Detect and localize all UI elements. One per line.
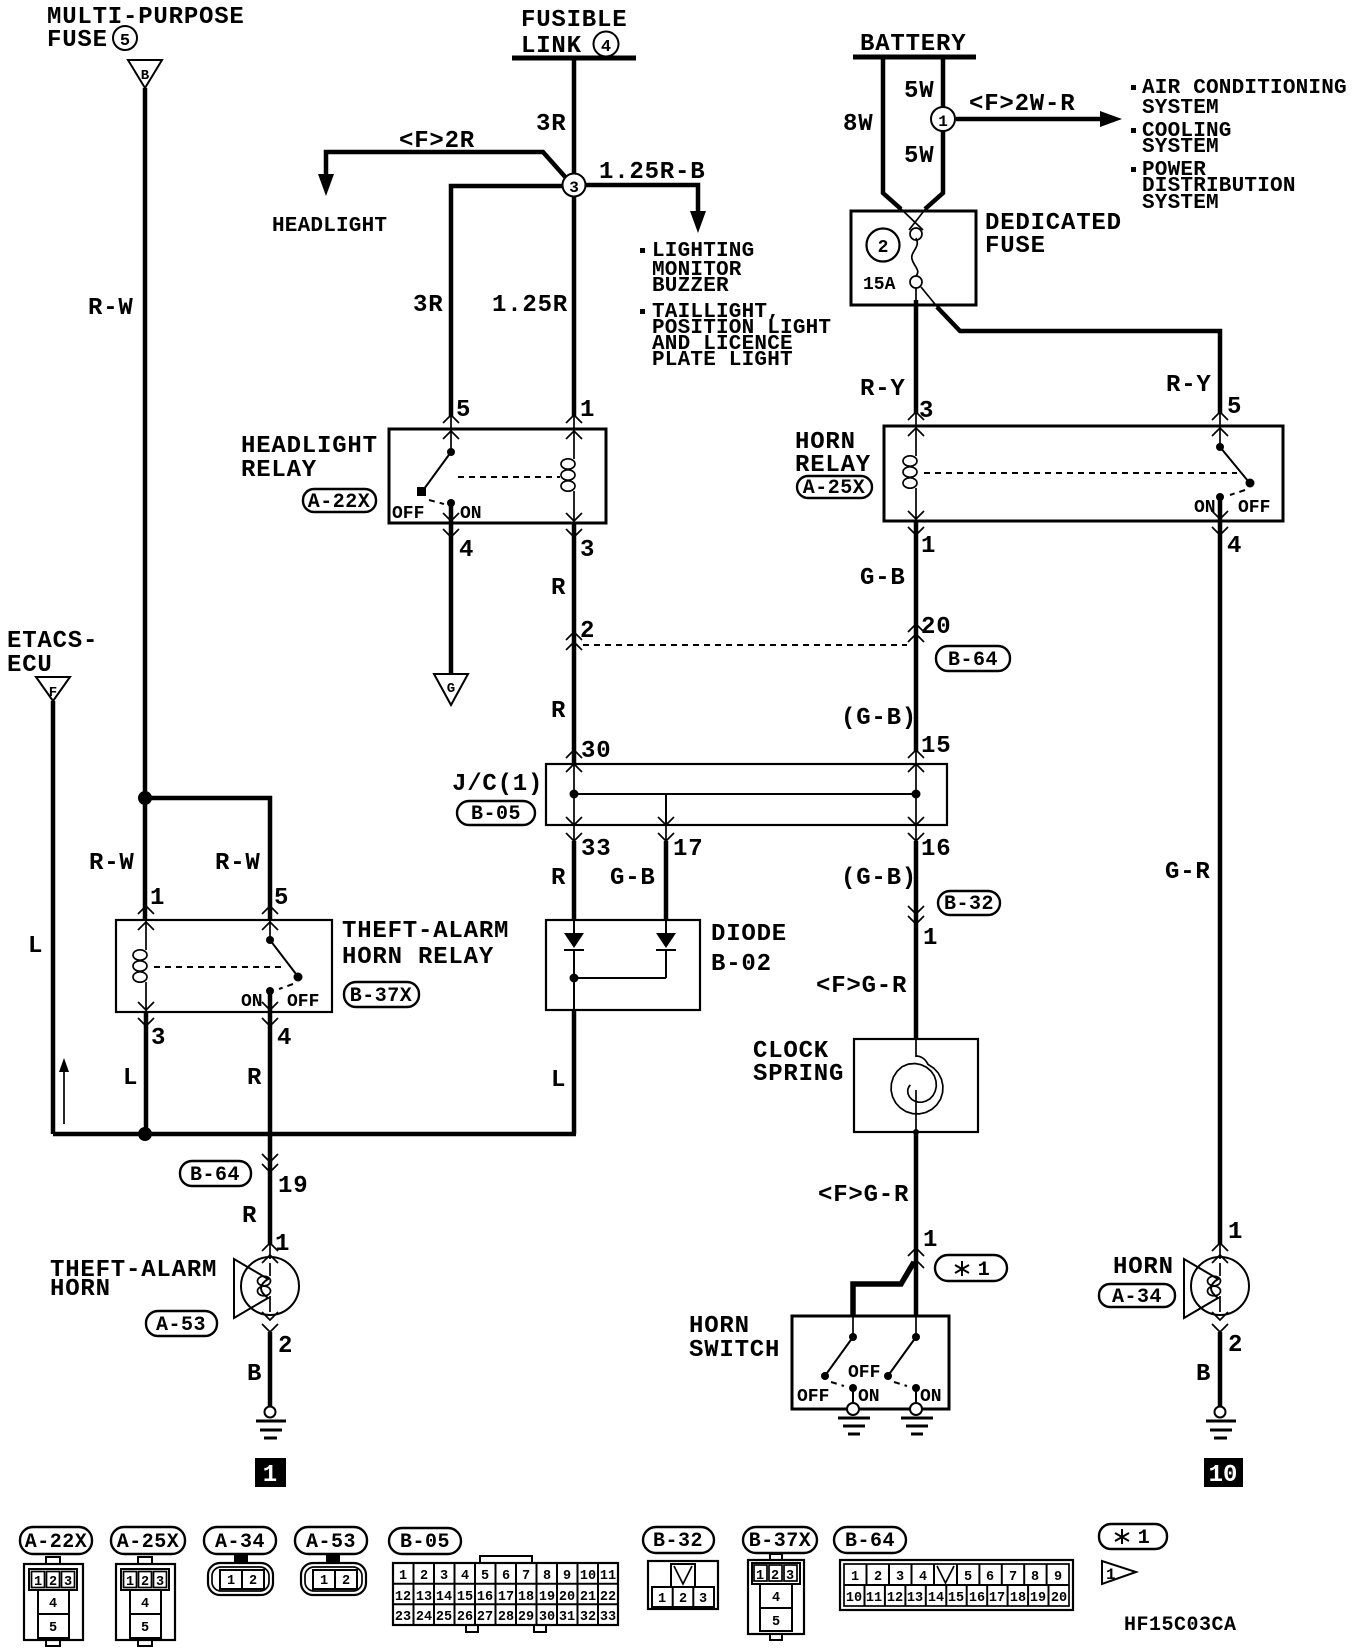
pin 30 chevrons bbox=[566, 750, 582, 772]
svg-text:3: 3 bbox=[569, 179, 579, 197]
relay HEADLIGHT RELAY box A-22X bbox=[389, 429, 606, 523]
svg-text:ON: ON bbox=[460, 504, 482, 524]
svg-text:HORN: HORN bbox=[1113, 1254, 1174, 1281]
pin 5 chevrons horn relay bbox=[1212, 412, 1228, 436]
svg-text:HORN: HORN bbox=[689, 1313, 750, 1340]
svg-text:3: 3 bbox=[440, 1569, 448, 1584]
label MULTI-PURPOSE FUSE 5 bbox=[47, 4, 245, 54]
pin 1 chevrons horn relay bbox=[908, 511, 924, 535]
svg-text:SYSTEM: SYSTEM bbox=[1142, 97, 1219, 120]
coil theft relay bbox=[133, 920, 147, 1012]
svg-text:HORN RELAY: HORN RELAY bbox=[342, 944, 494, 971]
svg-text:26: 26 bbox=[457, 1610, 473, 1625]
svg-text:5: 5 bbox=[141, 1621, 149, 1636]
connector label A-22X bbox=[303, 489, 376, 514]
svg-text:1: 1 bbox=[580, 397, 595, 424]
svg-text:10: 10 bbox=[846, 1591, 862, 1606]
svg-text:30: 30 bbox=[539, 1610, 555, 1625]
svg-text:14: 14 bbox=[928, 1591, 944, 1606]
node junction L wire bbox=[138, 1127, 152, 1141]
svg-text:2: 2 bbox=[278, 1333, 293, 1360]
wire L horizontal bottom run bbox=[53, 1132, 576, 1137]
svg-text:4: 4 bbox=[141, 1597, 149, 1612]
svg-text:DIODE: DIODE bbox=[711, 921, 787, 948]
svg-text:ON: ON bbox=[1194, 498, 1216, 518]
svg-text:18: 18 bbox=[1010, 1591, 1026, 1606]
svg-text:ECU: ECU bbox=[7, 652, 53, 679]
diode 2 bbox=[656, 920, 676, 978]
label lighting monitor buzzer list bbox=[640, 240, 831, 372]
label DEDICATED FUSE bbox=[985, 210, 1122, 260]
svg-text:5: 5 bbox=[274, 885, 289, 912]
svg-text:17: 17 bbox=[989, 1591, 1005, 1606]
svg-text:L: L bbox=[28, 933, 43, 960]
svg-text:3: 3 bbox=[156, 1575, 164, 1590]
dashed link coil to switch horn relay bbox=[924, 472, 1237, 474]
pin 3 chevrons theft relay bbox=[138, 1002, 154, 1026]
svg-text:ON: ON bbox=[858, 1387, 880, 1407]
svg-text:30: 30 bbox=[581, 738, 611, 765]
svg-text:15: 15 bbox=[921, 733, 951, 760]
svg-text:5: 5 bbox=[456, 397, 471, 424]
svg-text:16: 16 bbox=[969, 1591, 985, 1606]
svg-text:HORN: HORN bbox=[50, 1276, 111, 1303]
svg-text:1: 1 bbox=[1228, 1219, 1243, 1246]
svg-text:B-64: B-64 bbox=[948, 649, 998, 672]
dashed link coil to switch bbox=[458, 476, 560, 478]
svg-text:33: 33 bbox=[581, 836, 611, 863]
svg-text:A-34: A-34 bbox=[1112, 1286, 1162, 1309]
svg-text:<F>G-R: <F>G-R bbox=[816, 973, 907, 1000]
wire R-W branch to theft relay pin 5 bbox=[145, 798, 270, 920]
power symbol B (multi-purpose fuse) bbox=[128, 60, 162, 88]
svg-text:8: 8 bbox=[1031, 1570, 1039, 1585]
wire G-B J/C pin 17 to diode bbox=[665, 825, 667, 842]
svg-text:4: 4 bbox=[49, 1597, 57, 1612]
svg-text:B-02: B-02 bbox=[711, 951, 772, 978]
svg-text:R-W: R-W bbox=[88, 295, 134, 322]
connector label B-32 bbox=[938, 891, 1000, 916]
svg-text:2: 2 bbox=[771, 1569, 779, 1584]
wire (F)G-R clock spring down bbox=[914, 1132, 919, 1316]
svg-text:4: 4 bbox=[601, 38, 611, 57]
ground symbol horn switch 1 bbox=[838, 1403, 870, 1434]
direction arrow up bbox=[59, 1058, 69, 1124]
svg-text:G: G bbox=[447, 681, 455, 697]
svg-text:4: 4 bbox=[1227, 533, 1242, 560]
svg-text:HEADLIGHT: HEADLIGHT bbox=[241, 433, 378, 460]
connector label A-53 bbox=[146, 1311, 217, 1337]
battery bus bar bbox=[853, 55, 976, 60]
svg-text:OFF: OFF bbox=[392, 504, 424, 524]
connector label A-25X bbox=[797, 476, 872, 500]
label HORN SWITCH bbox=[689, 1313, 780, 1364]
svg-text:20: 20 bbox=[559, 1590, 575, 1605]
svg-text:2: 2 bbox=[420, 1569, 428, 1584]
wire L from ETACS-ECU down bbox=[51, 701, 56, 1134]
wire L theft relay pin 3 down bbox=[144, 1012, 149, 1134]
relay HORN RELAY box A-25X bbox=[884, 426, 1283, 521]
svg-text:HEADLIGHT: HEADLIGHT bbox=[272, 215, 387, 238]
wire R-W from fuse B down to junction bbox=[143, 88, 148, 798]
connector pinout A-25X label bbox=[111, 1527, 185, 1554]
svg-text:B-05: B-05 bbox=[471, 803, 521, 826]
horn HORN symbol bbox=[1184, 1257, 1249, 1318]
svg-text:(G-B): (G-B) bbox=[841, 865, 917, 892]
svg-text:1.25R-B: 1.25R-B bbox=[599, 159, 705, 186]
connector label B-05 bbox=[457, 801, 535, 826]
svg-text:R-Y: R-Y bbox=[860, 376, 906, 403]
svg-text:3: 3 bbox=[699, 1592, 707, 1607]
svg-text:1: 1 bbox=[921, 533, 936, 560]
label THEFT-ALARM HORN RELAY bbox=[342, 918, 509, 971]
svg-text:11: 11 bbox=[866, 1591, 882, 1606]
svg-text:2: 2 bbox=[679, 1592, 687, 1607]
switch horn relay bbox=[1216, 426, 1255, 521]
node junction R-W split bbox=[138, 791, 152, 805]
svg-text:B-64: B-64 bbox=[845, 1530, 895, 1553]
svg-text:ON: ON bbox=[920, 1387, 942, 1407]
svg-text:SPRING: SPRING bbox=[753, 1061, 844, 1088]
theft alarm horn pin 1 chevrons bbox=[262, 1243, 278, 1263]
svg-text:1: 1 bbox=[938, 113, 948, 131]
svg-text:3: 3 bbox=[580, 537, 595, 564]
svg-text:9: 9 bbox=[563, 1569, 571, 1584]
svg-text:5: 5 bbox=[481, 1569, 489, 1584]
connector label B-37X bbox=[344, 982, 419, 1008]
svg-text:15: 15 bbox=[948, 1591, 964, 1606]
pin 4 chevrons horn relay bbox=[1212, 511, 1228, 535]
pin 3 chevrons horn relay bbox=[908, 412, 924, 436]
svg-text:OFF: OFF bbox=[287, 992, 319, 1012]
wire R-Y branch to horn relay pin 5 bbox=[921, 287, 1220, 427]
wire pin 4 to ground G bbox=[449, 523, 454, 674]
connector pinout B-32 label bbox=[643, 1527, 714, 1553]
svg-text:6: 6 bbox=[502, 1569, 510, 1584]
svg-text:29: 29 bbox=[518, 1610, 534, 1625]
svg-text:3R: 3R bbox=[536, 111, 566, 138]
svg-text:5W: 5W bbox=[904, 143, 934, 170]
svg-text:R: R bbox=[247, 1065, 262, 1092]
pin 16 chevrons bbox=[908, 817, 924, 841]
svg-text:2: 2 bbox=[1228, 1332, 1243, 1359]
svg-text:SYSTEM: SYSTEM bbox=[1142, 192, 1219, 215]
ground symbol theft alarm horn bbox=[256, 1407, 286, 1439]
label CLOCK SPRING bbox=[753, 1038, 844, 1088]
svg-text:1: 1 bbox=[227, 1574, 235, 1589]
label ON / OFF theft relay bbox=[241, 992, 319, 1012]
svg-text:HF15C03CA: HF15C03CA bbox=[1124, 1614, 1237, 1637]
svg-text:7: 7 bbox=[522, 1569, 530, 1584]
svg-text:1: 1 bbox=[34, 1575, 42, 1590]
svg-text:8: 8 bbox=[543, 1569, 551, 1584]
svg-text:A-22X: A-22X bbox=[25, 1531, 88, 1554]
B-64 crossing chevrons bbox=[262, 1154, 278, 1172]
svg-text:A-53: A-53 bbox=[156, 1314, 206, 1337]
svg-text:2: 2 bbox=[342, 1574, 350, 1589]
svg-text:BATTERY: BATTERY bbox=[860, 31, 966, 58]
svg-text:1: 1 bbox=[978, 1259, 991, 1282]
connector pinout A-34 body bbox=[208, 1555, 273, 1595]
svg-text:15A: 15A bbox=[863, 275, 896, 295]
pin 4 chevrons headlight relay bbox=[443, 513, 459, 537]
clock spring spiral bbox=[891, 1039, 943, 1135]
svg-text:FUSE: FUSE bbox=[985, 233, 1046, 260]
wire 8W battery left leg bbox=[883, 57, 901, 209]
connector label B-64 left bbox=[180, 1161, 251, 1187]
svg-text:FUSE: FUSE bbox=[47, 27, 108, 54]
svg-text:RELAY: RELAY bbox=[241, 457, 317, 484]
connector pinout B-64 body bbox=[840, 1560, 1073, 1610]
label HEADLIGHT RELAY bbox=[241, 433, 378, 484]
svg-text:<F>G-R: <F>G-R bbox=[818, 1182, 909, 1209]
svg-text:27: 27 bbox=[477, 1610, 493, 1625]
svg-text:4: 4 bbox=[459, 537, 474, 564]
svg-text:9: 9 bbox=[1054, 1570, 1062, 1585]
svg-text:3: 3 bbox=[786, 1569, 794, 1584]
svg-text:R: R bbox=[242, 1203, 257, 1230]
svg-text:10: 10 bbox=[580, 1569, 596, 1584]
svg-text:4: 4 bbox=[461, 1569, 469, 1584]
svg-text:13: 13 bbox=[907, 1591, 923, 1606]
svg-text:B-32: B-32 bbox=[653, 1530, 703, 1553]
svg-text:B-37X: B-37X bbox=[350, 985, 413, 1008]
wire (F)2R branch to headlight bbox=[318, 152, 567, 196]
svg-text:3R: 3R bbox=[413, 292, 443, 319]
svg-text:J/C(1): J/C(1) bbox=[452, 771, 543, 798]
label DIODE B-02 bbox=[711, 921, 787, 978]
svg-text:1: 1 bbox=[1106, 1566, 1116, 1584]
svg-text:4: 4 bbox=[772, 1591, 780, 1606]
pin 33 chevrons bbox=[566, 817, 582, 841]
svg-text:2: 2 bbox=[49, 1575, 57, 1590]
svg-text:5: 5 bbox=[49, 1621, 57, 1636]
connector pinout A-34 label bbox=[204, 1527, 276, 1554]
junction connector J/C(1) box B-05 bbox=[546, 764, 947, 825]
svg-text:B: B bbox=[247, 1361, 262, 1388]
svg-text:SYSTEM: SYSTEM bbox=[1142, 136, 1219, 159]
page ref box 10 bbox=[1204, 1458, 1243, 1489]
svg-text:B-32: B-32 bbox=[944, 893, 994, 916]
svg-text:FUSIBLE: FUSIBLE bbox=[521, 7, 627, 34]
svg-text:5: 5 bbox=[120, 32, 130, 51]
svg-text:19: 19 bbox=[1030, 1591, 1046, 1606]
svg-text:R-W: R-W bbox=[215, 850, 261, 877]
svg-text:BUZZER: BUZZER bbox=[652, 275, 729, 298]
wire R headlight relay pin 3 down bbox=[572, 523, 577, 764]
svg-text:2: 2 bbox=[249, 1574, 257, 1589]
clock spring box bbox=[854, 1039, 978, 1132]
svg-text:7: 7 bbox=[1009, 1570, 1017, 1585]
svg-text:1: 1 bbox=[399, 1569, 407, 1584]
svg-text:ETACS-: ETACS- bbox=[7, 628, 98, 655]
connector pinout B-64 label bbox=[834, 1527, 906, 1553]
pin 4 chevrons theft relay bbox=[262, 1002, 278, 1026]
svg-text:28: 28 bbox=[498, 1610, 514, 1625]
pin 15 chevrons bbox=[908, 750, 924, 772]
wire 3R from node 3 to headlight relay pin 5 bbox=[451, 186, 574, 416]
svg-text:A-22X: A-22X bbox=[308, 491, 371, 514]
svg-text:1: 1 bbox=[756, 1569, 764, 1584]
power symbol F (ETACS-ECU) bbox=[36, 677, 70, 701]
svg-text:1: 1 bbox=[126, 1575, 134, 1590]
page ref box 1 bbox=[255, 1458, 286, 1489]
svg-text:20: 20 bbox=[921, 614, 951, 641]
fuse element symbol bbox=[910, 228, 922, 288]
node 1 circle bbox=[931, 107, 955, 131]
ground symbol horn switch 2 bbox=[901, 1403, 933, 1434]
pin 17 chevrons bbox=[658, 817, 674, 841]
svg-text:ON: ON bbox=[241, 992, 263, 1012]
svg-text:B-05: B-05 bbox=[400, 1531, 450, 1554]
svg-text:10: 10 bbox=[1209, 1462, 1238, 1489]
svg-text:16: 16 bbox=[477, 1590, 493, 1605]
horn A-34 pin 2 chevrons bbox=[1212, 1312, 1228, 1332]
svg-text:5: 5 bbox=[1227, 394, 1242, 421]
svg-text:19: 19 bbox=[539, 1590, 555, 1605]
svg-text:5: 5 bbox=[964, 1570, 972, 1585]
svg-text:24: 24 bbox=[416, 1610, 432, 1625]
connector pinout A-53 body bbox=[301, 1555, 366, 1595]
svg-text:25: 25 bbox=[436, 1610, 452, 1625]
theft alarm horn pin 2 chevrons bbox=[262, 1312, 278, 1332]
svg-text:5: 5 bbox=[772, 1615, 780, 1630]
diode box B-02 bbox=[546, 920, 700, 1010]
svg-text:G-B: G-B bbox=[610, 865, 656, 892]
label ON / OFF horn relay bbox=[1194, 498, 1270, 518]
switch theft relay bbox=[266, 920, 303, 1012]
dashed wire junction 2 to junction 20 bbox=[583, 644, 907, 646]
horn switch contact 1 bbox=[821, 1316, 857, 1403]
svg-text:1: 1 bbox=[275, 1231, 290, 1258]
pin 5 chevrons headlight relay bbox=[443, 415, 459, 439]
svg-text:1: 1 bbox=[851, 1570, 859, 1585]
fusible link bus bar bbox=[512, 56, 636, 61]
label OFF ON horn switch lower left bbox=[797, 1387, 880, 1407]
svg-text:2: 2 bbox=[580, 618, 595, 645]
pin 3 chevrons headlight relay bbox=[566, 513, 582, 537]
svg-text:12: 12 bbox=[887, 1591, 903, 1606]
svg-text:L: L bbox=[123, 1065, 138, 1092]
svg-text:R: R bbox=[551, 865, 566, 892]
connector pinout A-25X body bbox=[116, 1557, 175, 1646]
label air conditioning cooling power list bbox=[1131, 77, 1347, 215]
horn switch pin 1 chevrons bbox=[908, 1248, 924, 1268]
connector pinout B-32 body bbox=[648, 1561, 718, 1609]
junction 20 chevrons bbox=[908, 624, 924, 642]
symbol triangle 1 bbox=[1102, 1561, 1136, 1584]
pin 5 chevrons theft relay bbox=[262, 906, 278, 930]
svg-text:A-25X: A-25X bbox=[117, 1531, 180, 1554]
svg-text:<F>2R: <F>2R bbox=[399, 128, 475, 155]
svg-text:2: 2 bbox=[874, 1570, 882, 1585]
wire 1.25R from node 3 to headlight relay pin 1 bbox=[572, 196, 577, 416]
svg-text:(G-B): (G-B) bbox=[841, 705, 917, 732]
pin 1 chevrons theft relay bbox=[138, 906, 154, 930]
svg-text:SWITCH: SWITCH bbox=[689, 1337, 780, 1364]
connector pinout B-37X label bbox=[743, 1527, 817, 1553]
svg-text:1: 1 bbox=[263, 1462, 277, 1489]
wire R-W junction to theft relay pin 1 bbox=[143, 798, 148, 920]
wire R theft relay pin 4 down bbox=[268, 1012, 273, 1245]
wire 5W battery right leg upper bbox=[941, 57, 946, 107]
svg-text:18: 18 bbox=[518, 1590, 534, 1605]
svg-text:<F>2W-R: <F>2W-R bbox=[969, 91, 1075, 118]
wire branch to horn switch contacts bbox=[853, 1262, 914, 1316]
wire B theft alarm horn to ground bbox=[268, 1332, 273, 1406]
connector pinout B-05 body bbox=[393, 1556, 618, 1632]
svg-text:2: 2 bbox=[141, 1575, 149, 1590]
diode 1 bbox=[564, 920, 584, 978]
svg-text:1: 1 bbox=[1138, 1527, 1151, 1550]
svg-text:33: 33 bbox=[600, 1610, 616, 1625]
connector pinout B-05 label bbox=[389, 1528, 461, 1554]
wire 3R from fusible link down to node 3 bbox=[572, 58, 577, 178]
pin 1 chevrons headlight relay bbox=[566, 415, 582, 439]
svg-text:F: F bbox=[49, 685, 57, 701]
connector label B-64 right bbox=[936, 646, 1010, 672]
ground symbol horn bbox=[1206, 1407, 1236, 1439]
svg-text:3: 3 bbox=[64, 1575, 72, 1590]
label HORN RELAY bbox=[795, 429, 871, 479]
junction 2 chevrons bbox=[566, 632, 582, 650]
coil horn relay bbox=[903, 426, 917, 521]
svg-text:A-53: A-53 bbox=[306, 1531, 356, 1554]
svg-text:OFF: OFF bbox=[797, 1387, 829, 1407]
svg-text:4: 4 bbox=[919, 1570, 927, 1585]
svg-text:6: 6 bbox=[986, 1570, 994, 1585]
svg-text:PLATE LIGHT: PLATE LIGHT bbox=[652, 349, 793, 372]
label FUSIBLE LINK 4 bbox=[521, 7, 627, 60]
svg-text:3: 3 bbox=[151, 1025, 166, 1052]
svg-text:1: 1 bbox=[150, 885, 165, 912]
svg-text:20: 20 bbox=[1051, 1591, 1067, 1606]
horn A-34 pin 1 chevrons bbox=[1212, 1243, 1228, 1263]
svg-text:G-R: G-R bbox=[1165, 859, 1211, 886]
svg-text:1: 1 bbox=[923, 1227, 938, 1254]
wire G-R horn relay pin 4 down to horn bbox=[1218, 521, 1223, 1245]
wire L diode output down bbox=[573, 978, 575, 1134]
wire (F)2W-R arrow to systems bbox=[956, 111, 1122, 127]
label THEFT-ALARM HORN bbox=[50, 1257, 217, 1303]
svg-text:2: 2 bbox=[878, 238, 889, 258]
label ETACS-ECU bbox=[7, 628, 98, 679]
svg-text:B-37X: B-37X bbox=[749, 1530, 812, 1553]
svg-text:A-34: A-34 bbox=[215, 1531, 265, 1554]
connector pinout A-53 label bbox=[295, 1527, 367, 1554]
switch headlight relay bbox=[417, 429, 455, 523]
wire 5W battery right leg lower bbox=[925, 131, 943, 209]
svg-text:3: 3 bbox=[896, 1570, 904, 1585]
label OFF / ON headlight relay bbox=[392, 504, 482, 524]
connector pinout A-22X label bbox=[20, 1527, 92, 1554]
svg-text:1: 1 bbox=[923, 925, 938, 952]
node 3 circle bbox=[563, 174, 586, 198]
wire G-B horn relay pin 1 down bbox=[914, 521, 919, 752]
wire R to theft alarm horn bbox=[269, 1245, 271, 1259]
relay THEFT-ALARM HORN RELAY box B-37X bbox=[116, 920, 332, 1012]
svg-text:8W: 8W bbox=[843, 111, 873, 138]
svg-text:12: 12 bbox=[395, 1590, 411, 1605]
svg-text:OFF: OFF bbox=[1238, 498, 1270, 518]
svg-text:5W: 5W bbox=[904, 78, 934, 105]
svg-text:21: 21 bbox=[580, 1590, 596, 1605]
svg-text:14: 14 bbox=[436, 1590, 452, 1605]
svg-text:17: 17 bbox=[498, 1590, 514, 1605]
svg-text:R: R bbox=[551, 698, 566, 725]
svg-text:R-W: R-W bbox=[89, 850, 135, 877]
coil headlight relay bbox=[561, 429, 575, 523]
